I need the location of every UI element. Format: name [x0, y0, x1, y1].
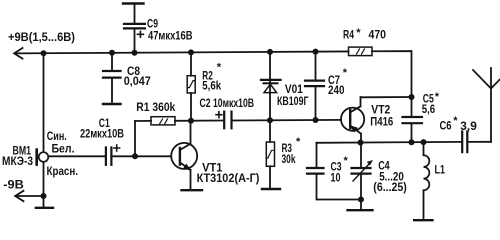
svg-text:*: *: [217, 62, 222, 74]
svg-text:-9В: -9В: [3, 178, 24, 192]
svg-text:*: *: [296, 136, 301, 148]
svg-text:470: 470: [369, 27, 387, 41]
svg-text:5,6: 5,6: [422, 102, 436, 116]
svg-text:R1 360k: R1 360k: [136, 100, 175, 114]
svg-text:Бел.: Бел.: [52, 142, 75, 156]
svg-text:*: *: [344, 155, 349, 167]
svg-text:5,6k: 5,6k: [202, 79, 221, 93]
svg-text:*: *: [343, 67, 348, 79]
svg-text:С2 10мкх10В: С2 10мкх10В: [200, 96, 255, 110]
svg-text:L1: L1: [435, 163, 446, 177]
svg-text:+9В(1,5...6В): +9В(1,5...6В): [8, 30, 75, 44]
svg-text:(6...25): (6...25): [373, 180, 407, 194]
svg-text:*: *: [356, 27, 361, 39]
svg-text:30k: 30k: [282, 152, 296, 166]
svg-text:47мкх16В: 47мкх16В: [148, 29, 193, 43]
svg-text:*: *: [453, 115, 458, 127]
svg-text:КТ3102(А-Г): КТ3102(А-Г): [197, 171, 260, 185]
svg-text:Красн.: Красн.: [47, 164, 79, 178]
svg-text:240: 240: [328, 83, 345, 97]
svg-text:R4: R4: [343, 27, 354, 41]
svg-text:КВ109Г: КВ109Г: [277, 94, 309, 108]
svg-text:*: *: [435, 91, 440, 103]
svg-text:МКЭ-3: МКЭ-3: [2, 154, 33, 168]
svg-text:П416: П416: [370, 115, 393, 129]
svg-text:3,9: 3,9: [460, 119, 477, 133]
svg-text:0,047: 0,047: [124, 74, 151, 88]
svg-text:10: 10: [331, 171, 341, 185]
svg-text:22мкх10В: 22мкх10В: [80, 127, 124, 141]
svg-text:С6: С6: [440, 119, 452, 133]
